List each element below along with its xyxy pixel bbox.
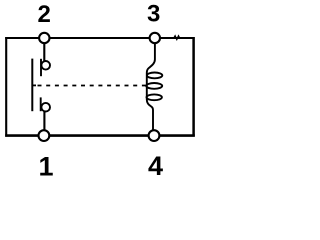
coil L1: loop 3 xyxy=(147,94,162,100)
pin 4 terminal xyxy=(149,130,160,141)
relay body outline: right edge wire xyxy=(192,37,195,137)
pin 3 terminal xyxy=(150,33,160,43)
coil L1: loop 1 xyxy=(147,73,162,79)
svg-text:1: 1 xyxy=(38,152,53,180)
switch S1: lower contact side bar xyxy=(40,97,42,111)
svg-text:4: 4 xyxy=(148,151,163,180)
relay body outline: left edge wire xyxy=(5,37,7,137)
switch S1: blade actuation tick xyxy=(32,84,37,86)
pin 2 terminal xyxy=(39,33,49,43)
wire: stub from pin 2 down to switch contact xyxy=(43,41,45,61)
pin 1 terminal xyxy=(39,130,50,141)
svg-text:2: 2 xyxy=(38,1,51,28)
switch S1: lower fixed contact xyxy=(41,103,50,112)
wire: stub from lower switch contact down to pin 1 xyxy=(43,112,45,133)
scan squiggle artifact on top rail xyxy=(174,36,181,40)
switch S1: upper fixed contact xyxy=(41,61,50,70)
coil L1: loop 2 xyxy=(146,83,162,89)
svg-text:3: 3 xyxy=(147,1,160,28)
relay body outline: top rail wire xyxy=(5,37,194,39)
coil L1: lead from pin 3 and left spine xyxy=(147,41,155,132)
mechanical linkage: dashed line from blade to coil xyxy=(38,85,147,87)
switch S1: movable blade xyxy=(31,59,33,112)
relay body outline: bottom rail wire xyxy=(5,134,195,137)
switch S1: upper contact side bar xyxy=(40,59,42,76)
